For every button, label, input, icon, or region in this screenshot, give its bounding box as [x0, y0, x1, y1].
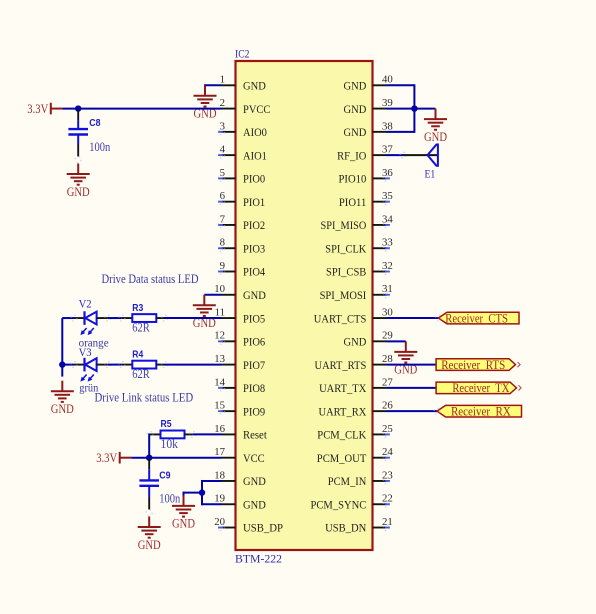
svg-text:10k: 10k	[161, 437, 179, 451]
pin 7 (PIO2)	[218, 213, 265, 232]
svg-text:SPI_CSB: SPI_CSB	[326, 265, 366, 279]
label IC2	[235, 47, 249, 61]
junction node LED rail	[59, 361, 65, 367]
svg-text:V3: V3	[79, 345, 92, 359]
svg-text:15: 15	[214, 400, 225, 412]
wire pin37 (RF_IO) to antenna	[387, 152, 407, 158]
supply 3.3V bottom	[96, 451, 131, 465]
supply 3.3V top	[27, 102, 62, 116]
pin 30 (UART_CTS)	[314, 306, 393, 325]
net flag Receiver_RX (input)	[434, 404, 522, 418]
wire pin10 to ground	[204, 294, 221, 296]
svg-text:UART_RTS: UART_RTS	[315, 358, 367, 372]
svg-text:RF_IO: RF_IO	[337, 148, 366, 162]
pin 15 (PIO9)	[214, 400, 265, 419]
capacitor C8	[68, 110, 88, 163]
svg-text:Receiver_CTS: Receiver_CTS	[445, 311, 508, 325]
svg-text:USB_DP: USB_DP	[243, 521, 283, 535]
pin 38 (GND)	[344, 120, 393, 139]
label R4	[132, 349, 143, 360]
comment Drive Data status LED	[102, 272, 199, 286]
pin 14 (PIO8)	[214, 376, 265, 395]
svg-text:3: 3	[220, 120, 225, 132]
svg-text:PIO0: PIO0	[243, 172, 265, 186]
svg-text:GND: GND	[243, 497, 266, 511]
svg-text:19: 19	[214, 493, 225, 505]
pin 33 (SPI_CLK)	[325, 237, 392, 256]
pin 8 (PIO3)	[218, 237, 265, 256]
svg-text:UART_TX: UART_TX	[319, 381, 366, 395]
wire pin27 to Receiver_TX	[387, 387, 437, 389]
svg-text:Drive Link status LED: Drive Link status LED	[95, 391, 194, 405]
pin 31 (SPI_MOSI)	[320, 283, 393, 302]
svg-text:GND: GND	[243, 474, 266, 488]
svg-text:IC2: IC2	[235, 47, 249, 61]
svg-text:USB_DN: USB_DN	[325, 521, 366, 535]
svg-text:PIO4: PIO4	[243, 265, 265, 279]
svg-text:Receiver_TX: Receiver_TX	[452, 381, 509, 395]
pin 40 (GND)	[344, 74, 393, 93]
resistor R4	[119, 361, 168, 369]
wire pin1 to ground	[205, 84, 222, 90]
pin 35 (PIO11)	[339, 190, 393, 209]
svg-text:GND: GND	[51, 402, 74, 416]
pin 12 (PIO6)	[214, 330, 265, 349]
svg-text:100n: 100n	[159, 492, 181, 506]
svg-text:GND: GND	[67, 185, 90, 199]
comment Drive Link status LED	[95, 391, 194, 405]
value 100n (C9)	[159, 492, 181, 506]
pin 27 (UART_TX)	[319, 376, 393, 395]
svg-text:SPI_CLK: SPI_CLK	[325, 241, 366, 255]
ground at pins 18/19	[172, 495, 195, 530]
pin 25 (PCM_CLK)	[317, 423, 392, 442]
wire 3.3V to pin 17 (VCC)	[131, 457, 221, 459]
svg-text:PIO11: PIO11	[339, 195, 366, 209]
svg-text:GND: GND	[424, 130, 447, 144]
svg-text:30: 30	[382, 306, 393, 318]
svg-text:29: 29	[382, 330, 393, 342]
pin 37 (RF_IO)	[337, 144, 393, 163]
svg-text:C8: C8	[89, 118, 101, 129]
pin 28 (UART_RTS)	[315, 353, 393, 372]
svg-text:Reset: Reset	[243, 428, 267, 442]
pin 4 (AIO1)	[218, 144, 267, 163]
svg-text:Drive Data status LED: Drive Data status LED	[102, 272, 199, 286]
svg-text:PIO9: PIO9	[243, 404, 265, 418]
pin 39 (GND)	[344, 97, 393, 116]
pin 3 (AIO0)	[218, 120, 267, 139]
pin 5 (PIO0)	[218, 167, 265, 186]
LED V2	[71, 311, 111, 335]
svg-text:PIO1: PIO1	[243, 195, 265, 209]
pin 13 (PIO7)	[214, 353, 265, 372]
svg-text:14: 14	[214, 376, 225, 388]
svg-text:PCM_OUT: PCM_OUT	[317, 451, 367, 465]
svg-text:GND: GND	[344, 335, 367, 349]
wire pin30 to Receiver_CTS	[387, 317, 439, 319]
svg-text:62R: 62R	[132, 320, 150, 334]
svg-text:Receiver_RTS: Receiver_RTS	[441, 358, 505, 372]
svg-text:UART_RX: UART_RX	[319, 404, 367, 418]
pin 10 (GND)	[214, 283, 266, 302]
wire R3 to pin	[165, 317, 222, 319]
svg-text:5: 5	[220, 167, 225, 179]
pin 18 (GND)	[214, 469, 266, 488]
label BTM-222	[235, 552, 282, 566]
pin 34 (SPI_MISO)	[321, 213, 394, 232]
wire LED cathode rail	[62, 318, 74, 377]
svg-text:C9: C9	[159, 471, 171, 482]
wire pin18/pin19 to ground	[184, 480, 222, 505]
svg-text:10: 10	[214, 283, 225, 295]
svg-text:PIO5: PIO5	[243, 311, 265, 325]
svg-text:18: 18	[214, 469, 225, 481]
pin 32 (SPI_CSB)	[326, 260, 393, 279]
pin 26 (UART_RX)	[319, 400, 394, 419]
svg-text:PIO2: PIO2	[243, 218, 265, 232]
svg-text:17: 17	[214, 446, 225, 458]
resistor R5	[147, 431, 196, 439]
svg-text:8: 8	[220, 237, 225, 249]
svg-text:V2: V2	[79, 297, 92, 311]
ground below C8	[67, 164, 90, 199]
svg-text:12: 12	[214, 330, 225, 342]
svg-text:VCC: VCC	[243, 451, 265, 465]
svg-text:R5: R5	[161, 419, 172, 430]
pin 20 (USB_DP)	[214, 516, 283, 535]
junction node pin18/19	[199, 489, 205, 495]
ground below LED rail	[51, 381, 74, 416]
net flag Receiver_CTS (input)	[435, 311, 519, 325]
svg-text:E1: E1	[425, 167, 436, 181]
ground at pin 29	[394, 341, 417, 376]
ground below C9	[138, 517, 161, 552]
svg-text:37: 37	[382, 144, 393, 156]
resistor R3	[119, 314, 168, 322]
svg-text:PCM_SYNC: PCM_SYNC	[311, 497, 367, 511]
label E1	[425, 167, 436, 181]
svg-text:1: 1	[220, 74, 225, 86]
capacitor C9	[139, 459, 159, 516]
ground at pin 1	[194, 85, 217, 120]
wire V2 to R3	[108, 317, 122, 319]
svg-text:PVCC: PVCC	[243, 102, 270, 116]
label C8	[89, 118, 101, 129]
wire V3 to R4	[108, 364, 122, 366]
wire pin29 to ground	[387, 340, 406, 342]
comment grün	[79, 380, 98, 394]
svg-text:11: 11	[215, 306, 225, 318]
svg-text:28: 28	[382, 353, 393, 365]
pin 24 (PCM_OUT)	[317, 446, 394, 465]
pin 9 (PIO4)	[218, 260, 265, 279]
svg-text:39: 39	[382, 97, 393, 109]
svg-text:GND: GND	[138, 538, 161, 552]
label V2	[79, 297, 92, 311]
svg-text:20: 20	[214, 516, 225, 528]
junction node 3.3V/C8	[75, 105, 81, 111]
value 100n (C8)	[89, 140, 111, 154]
wire R4 to pin	[165, 364, 222, 366]
svg-text:GND: GND	[344, 102, 367, 116]
label V3	[79, 345, 92, 359]
pin 6 (PIO1)	[218, 190, 265, 209]
svg-text:R3: R3	[132, 303, 143, 314]
svg-text:3.3V: 3.3V	[27, 102, 48, 116]
svg-text:GND: GND	[344, 125, 367, 139]
svg-text:16: 16	[214, 423, 225, 435]
pin 23 (PCM_IN)	[328, 469, 393, 488]
net flag Receiver_RTS (output)	[436, 358, 520, 372]
svg-text:26: 26	[382, 400, 393, 412]
svg-text:GND: GND	[344, 79, 367, 93]
svg-text:GND: GND	[172, 517, 195, 531]
wire pin28 to Receiver_RTS	[387, 364, 437, 366]
IC IC2 BTM-222 body	[236, 61, 373, 550]
net flag Receiver_TX (output)	[436, 381, 521, 395]
label C9	[159, 471, 171, 482]
svg-text:GND: GND	[243, 79, 266, 93]
svg-text:38: 38	[382, 120, 393, 132]
label R5	[161, 419, 172, 430]
svg-text:62R: 62R	[132, 367, 150, 381]
LED V3	[71, 358, 111, 382]
svg-text:13: 13	[214, 353, 225, 365]
pin 21 (USB_DN)	[325, 516, 393, 535]
svg-text:PIO10: PIO10	[339, 172, 367, 186]
pin 29 (GND)	[344, 330, 393, 349]
wire pins 40/39/38 to ground	[387, 84, 436, 133]
pin 22 (PCM_SYNC)	[311, 493, 393, 512]
svg-text:PIO8: PIO8	[243, 381, 265, 395]
pin 19 (GND)	[214, 493, 266, 512]
label R3	[132, 303, 143, 314]
pin 36 (PIO10)	[339, 167, 394, 186]
wire 3.3V to pin 2 (PVCC) net N$3.3V	[62, 108, 221, 110]
wire pin26 to Receiver_RX	[387, 410, 438, 412]
svg-text:27: 27	[382, 376, 393, 388]
value 62R (R4)	[132, 367, 150, 381]
antenna E1	[403, 143, 438, 166]
svg-text:PIO3: PIO3	[243, 241, 265, 255]
svg-text:3.3V: 3.3V	[96, 451, 117, 465]
svg-text:PCM_CLK: PCM_CLK	[317, 428, 366, 442]
svg-text:BTM-222: BTM-222	[235, 552, 282, 566]
value 62R (R3)	[132, 320, 150, 334]
svg-text:4: 4	[220, 144, 226, 156]
comment orange	[79, 335, 109, 349]
svg-text:6: 6	[220, 190, 226, 202]
svg-text:UART_CTS: UART_CTS	[314, 311, 367, 325]
svg-text:40: 40	[382, 74, 393, 86]
svg-text:R4: R4	[132, 349, 143, 360]
pin 16 (Reset)	[214, 423, 267, 442]
pin 1 (GND)	[220, 74, 266, 93]
svg-text:SPI_MOSI: SPI_MOSI	[320, 288, 367, 302]
svg-text:PIO7: PIO7	[243, 358, 265, 372]
pin 17 (VCC)	[214, 446, 264, 465]
svg-text:9: 9	[220, 260, 225, 272]
svg-text:AIO1: AIO1	[243, 148, 267, 162]
svg-text:2: 2	[220, 97, 225, 109]
wire R5 to 3.3V junction	[148, 433, 150, 457]
wire R5 to pin	[193, 433, 222, 435]
pin 2 (PVCC)	[220, 97, 271, 116]
svg-text:SPI_MISO: SPI_MISO	[321, 218, 367, 232]
svg-text:100n: 100n	[89, 140, 111, 154]
ground at pin 10	[193, 295, 216, 330]
svg-text:PIO6: PIO6	[243, 335, 265, 349]
ground at pins 38-40	[424, 109, 447, 144]
pin 11 (PIO5)	[215, 306, 266, 325]
svg-text:7: 7	[220, 213, 226, 225]
junction node pins 38-40	[411, 105, 417, 111]
svg-text:AIO0: AIO0	[243, 125, 267, 139]
svg-text:PCM_IN: PCM_IN	[328, 474, 367, 488]
value 10k (R5)	[161, 437, 179, 451]
svg-text:GND: GND	[243, 288, 266, 302]
svg-text:Receiver_RX: Receiver_RX	[451, 404, 511, 418]
junction node 3.3V/C9/R5	[146, 455, 152, 461]
